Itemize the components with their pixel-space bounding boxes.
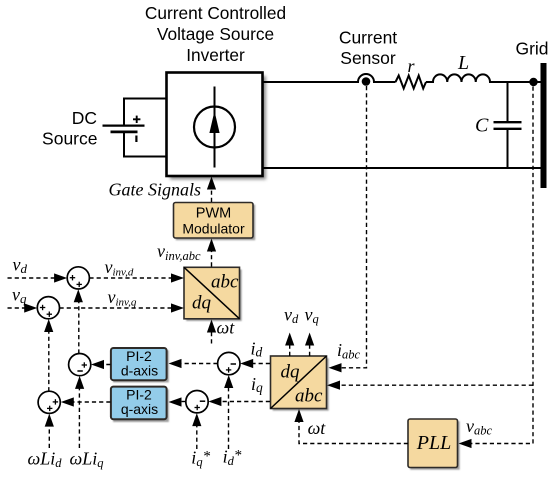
svg-text:abc: abc [295, 386, 323, 407]
svg-text:PWM: PWM [196, 206, 231, 222]
svg-text:L: L [457, 52, 469, 74]
svg-text:Current: Current [339, 28, 397, 48]
svg-text:dq: dq [281, 362, 301, 383]
svg-text:abc: abc [211, 272, 239, 293]
svg-text:Source: Source [42, 128, 97, 148]
svg-text:dq: dq [192, 293, 212, 314]
svg-text:Inverter: Inverter [186, 45, 245, 65]
svg-text:Grid: Grid [515, 39, 548, 59]
svg-text:Voltage Source: Voltage Source [157, 24, 274, 44]
svg-text:q-axis: q-axis [121, 401, 158, 417]
svg-text:PLL: PLL [416, 432, 451, 454]
svg-text:d-axis: d-axis [121, 363, 158, 379]
svg-text:ωt: ωt [217, 318, 236, 338]
svg-text:Gate Signals: Gate Signals [109, 179, 202, 199]
svg-text:r: r [408, 56, 416, 76]
svg-text:Current Controlled: Current Controlled [145, 3, 286, 23]
svg-text:DC: DC [72, 108, 97, 128]
svg-text:C: C [475, 115, 489, 137]
svg-text:Modulator: Modulator [182, 220, 245, 236]
svg-text:ωt: ωt [308, 418, 327, 438]
svg-text:Sensor: Sensor [340, 48, 396, 68]
